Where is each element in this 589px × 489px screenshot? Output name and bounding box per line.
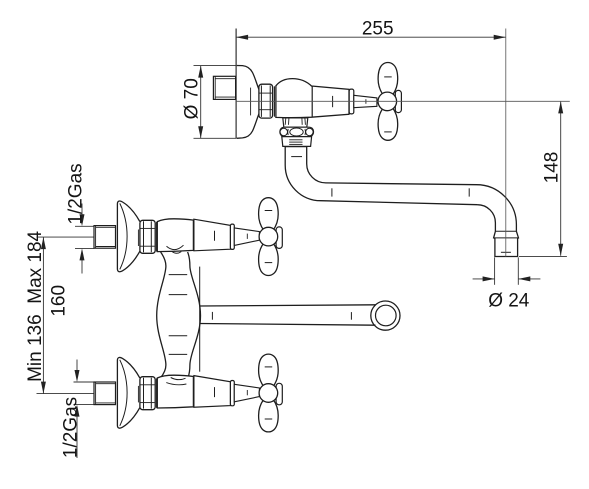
stem tick — [365, 99, 367, 104]
wall line / left extension line — [235, 29, 237, 139]
square inlet fitting (top) — [94, 226, 116, 249]
dimension Ø70 — [194, 66, 237, 139]
escutcheon bell (bottom valve) — [117, 357, 139, 428]
svg-text:148: 148 — [542, 152, 563, 184]
handle cone (top valve) — [194, 219, 231, 251]
hex nut (bottom valve) — [140, 377, 157, 410]
handle end cap (top view) — [395, 90, 401, 112]
valve body (bottom valve) — [157, 375, 193, 408]
escutcheon neck edge (top valve) — [137, 230, 139, 247]
spout end inner circle (plan) — [376, 305, 397, 326]
svg-text:Min 136 Max 184: Min 136 Max 184 — [25, 230, 46, 381]
spout tube silhouette (top view) — [285, 147, 518, 257]
svg-text:1/2Gas: 1/2Gas — [61, 397, 82, 458]
handle collar (bottom valve) — [230, 381, 234, 406]
valve body barrel (top view) — [276, 79, 349, 118]
spout lower nut (top view) — [282, 137, 312, 147]
escutcheon neck edge (bottom valve) — [137, 386, 139, 403]
cross handle arms (top valve) — [259, 198, 279, 238]
handle stem (bottom valve) — [234, 384, 259, 402]
hex nut (top valve) — [140, 220, 157, 253]
dimension Min136/Max184 + 160 — [37, 237, 95, 394]
spout end outer circle (plan) — [371, 301, 400, 330]
handle collar (top view) — [349, 89, 354, 114]
hex nut (top view) — [259, 84, 275, 118]
spout vertical extension / centerline (right of 255) — [505, 29, 507, 257]
spout tube ticks (top view) — [291, 156, 302, 158]
cross handle arms (top view) — [378, 63, 398, 104]
column ticks — [169, 274, 188, 276]
spout flange edge line (plan) — [199, 267, 201, 372]
dimension 1/2Gas (bottom inlet) — [74, 360, 95, 459]
cross handle arms (bottom valve) — [259, 354, 279, 394]
centerline of faucet body (top view) — [236, 100, 570, 102]
handle hub (top view) — [378, 92, 397, 111]
dimension Ø24 — [473, 257, 541, 284]
escutcheon Ø70 (top view) — [237, 66, 259, 139]
handle end cap (bottom valve) — [276, 383, 282, 405]
dimension 1/2Gas (top inlet) — [75, 204, 94, 274]
handle end cap (top valve) — [276, 227, 282, 249]
handle hub (top valve) — [259, 227, 278, 246]
valve body (top valve) — [157, 219, 193, 252]
spout ring nut with balls (top view) — [280, 127, 314, 136]
spout tube (plan) — [200, 305, 376, 306]
handle stem (top valve) — [234, 228, 259, 246]
body/cone edge — [311, 86, 313, 117]
svg-text:Ø 24: Ø 24 — [488, 291, 530, 312]
spout collar trapezoid (top view) — [283, 118, 308, 127]
dimension 148 — [519, 101, 567, 256]
handle collar (top valve) — [230, 224, 234, 249]
svg-text:Ø 70: Ø 70 — [181, 78, 202, 119]
handle bulb ticks (bottom valve) — [265, 366, 273, 368]
square wall fitting (top view) — [213, 76, 235, 99]
svg-text:160: 160 — [49, 285, 70, 317]
column right edge — [188, 252, 201, 378]
handle bulb ticks (top valve) — [265, 210, 273, 212]
column left edge — [157, 252, 166, 378]
body/column fillet smiles (bottom valve) — [171, 378, 186, 380]
handle cone (bottom valve) — [194, 376, 231, 408]
escutcheon bell (top valve) — [117, 201, 139, 272]
handle hub (bottom valve) — [259, 384, 278, 403]
cone highlight tick — [332, 96, 334, 107]
svg-text:1/2Gas: 1/2Gas — [66, 163, 87, 224]
escutcheon neck edge — [250, 88, 252, 116]
square inlet fitting (bottom) — [94, 382, 116, 405]
svg-text:255: 255 — [362, 19, 394, 40]
handle stem (top view) — [354, 95, 377, 107]
handle bulb ticks (top view) — [384, 76, 392, 78]
dimension 255 line — [236, 35, 506, 40]
body/column fillet smiles (top valve) — [167, 245, 184, 249]
aerator joint lines (top view) — [495, 230, 516, 232]
